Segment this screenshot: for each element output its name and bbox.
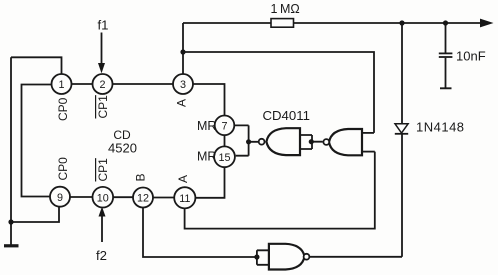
wire: pin 12 to pin 11 [153, 197, 175, 199]
svg-text:f1: f1 [98, 18, 109, 33]
capacitor C1 10nF [439, 23, 453, 88]
svg-text:12: 12 [137, 193, 149, 205]
svg-text:f2: f2 [96, 248, 107, 263]
wire: pin 11 down and right to gate U1b bottom input [185, 152, 375, 229]
pin 7 [215, 116, 235, 136]
pin 9 [50, 187, 70, 207]
svg-text:7: 7 [221, 121, 227, 133]
svg-text:CP1: CP1 [96, 158, 110, 182]
f1 input arrow [98, 33, 105, 74]
node: junction on pin 3 vertical [180, 49, 185, 54]
svg-text:1N4148: 1N4148 [416, 120, 465, 135]
wire: hook from rail to pin 1 top [11, 57, 62, 74]
wire: U1c output to diode line [309, 256, 402, 258]
op-amp U1c NAND gate (right facing) [269, 244, 310, 270]
pin 12 [133, 188, 153, 208]
svg-text:CD4011: CD4011 [263, 108, 310, 123]
wire: pin 3 vertical up to top rail [182, 23, 184, 74]
output arrow [480, 19, 494, 28]
op-amp U1a NAND gate (left facing) [259, 128, 300, 155]
svg-text:15: 15 [218, 152, 230, 164]
wire: pin 10 to pin 12 [113, 196, 133, 198]
wire: pin 1 to pin 2 [72, 83, 93, 85]
svg-text:A: A [176, 175, 190, 183]
svg-text:1 MΩ: 1 MΩ [271, 2, 300, 16]
wire: top rail [183, 22, 482, 24]
pin 2 [93, 74, 113, 94]
f2 input arrow [99, 207, 106, 242]
wire: pin 3 to pin 7 [193, 84, 225, 115]
wire: pin 11 to pin 15 [195, 167, 224, 198]
wire: gate U1b bottom input stub [362, 151, 375, 153]
label CP1 pin10 (rotated, overline) [96, 158, 110, 182]
wire: pin 9 to pin 10 [70, 196, 93, 198]
pin 11 [174, 187, 195, 208]
svg-text:10nF: 10nF [456, 49, 486, 64]
op-amp U1b NAND gate (left facing) [323, 129, 362, 155]
pin 10 [93, 187, 114, 208]
wire: left ground rail vertical [10, 57, 12, 245]
wire: gate U1b top input stub [362, 132, 374, 134]
resistor R1 1M [271, 19, 294, 28]
pin 3 [173, 74, 193, 94]
svg-text:A: A [175, 99, 189, 107]
wire: pin 9 bottom to ground junction [11, 207, 59, 222]
svg-text:11: 11 [179, 193, 190, 205]
svg-text:MR: MR [197, 150, 216, 164]
node: MR junction [246, 139, 251, 144]
svg-text:10: 10 [97, 192, 109, 204]
ground [4, 244, 19, 247]
wire: pin 12 down to gate U1c input [143, 208, 257, 257]
wire: MR pins bracket to gate U1a output [234, 125, 258, 155]
svg-text:MR: MR [197, 119, 216, 133]
svg-text:B: B [134, 173, 148, 181]
diode D1 1N4148 [395, 23, 408, 257]
node: U1a input junction [309, 139, 314, 144]
node: ground junction [8, 219, 13, 224]
wire: U1a inputs tied bracket [300, 135, 323, 149]
svg-text:1: 1 [58, 79, 64, 91]
svg-text:4520: 4520 [108, 141, 137, 156]
wire: second rail pin 1 left to pin 9 left [22, 85, 52, 197]
wire: pin 2 to pin 3 [113, 83, 174, 85]
svg-text:9: 9 [57, 192, 63, 204]
wire: junction y52 to gate U1b top input [183, 52, 374, 133]
wire: U1c inputs tied bracket [257, 250, 269, 264]
pin 1 [52, 74, 72, 94]
pin 15 [214, 146, 235, 167]
svg-text:3: 3 [180, 79, 186, 91]
node: top rail junction to diode [399, 20, 404, 25]
svg-text:CP0: CP0 [56, 157, 70, 181]
wire: pin 7 to pin 15 vertical [224, 135, 226, 147]
node: U1c input junction [254, 254, 259, 259]
node: top rail junction to capacitor [443, 20, 448, 25]
svg-text:2: 2 [99, 79, 105, 91]
svg-text:CP0: CP0 [56, 97, 70, 121]
svg-text:CP1: CP1 [96, 95, 110, 119]
label CP1 pin2 (rotated, overline) [96, 95, 110, 119]
